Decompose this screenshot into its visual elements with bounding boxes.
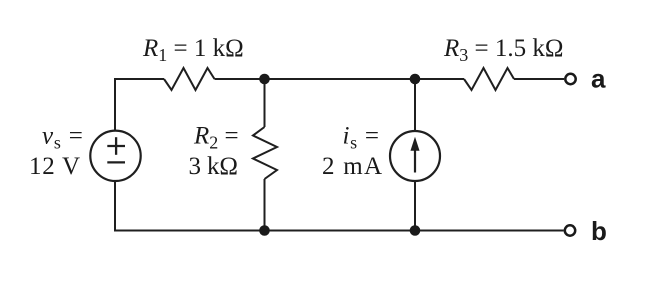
wire top middle (215, 78, 465, 80)
resistor R2 (253, 127, 277, 179)
wire R2 branch top (264, 79, 266, 127)
svg-text:R3 = 1.5 kΩ: R3 = 1.5 kΩ (443, 35, 563, 65)
wire to terminal a (514, 78, 564, 80)
vs plus sign (107, 145, 125, 147)
node junction dot top-right (410, 74, 421, 85)
svg-text:R2 =: R2 = (193, 123, 239, 153)
current source is (390, 131, 440, 181)
voltage source vs (90, 131, 140, 181)
svg-text:vs =: vs = (42, 123, 84, 153)
node junction dot bottom-right (410, 225, 421, 236)
vs minus sign (107, 161, 125, 163)
wire current-source branch top (414, 79, 416, 131)
svg-text:2 mA: 2 mA (322, 153, 382, 180)
current source arrow (411, 138, 419, 173)
wire current-source branch bottom (414, 181, 416, 231)
svg-text:R1 = 1 kΩ: R1 = 1 kΩ (142, 35, 244, 65)
resistor R3 (464, 68, 514, 90)
resistor R1 (164, 68, 215, 90)
svg-text:b: b (591, 216, 607, 246)
svg-text:3 kΩ: 3 kΩ (189, 153, 239, 180)
svg-text:is =: is = (343, 123, 380, 153)
terminal a open circle (565, 74, 575, 84)
node junction dot top-left (259, 74, 270, 85)
wire top-left segment (115, 79, 164, 131)
node junction dot bottom-left (259, 225, 270, 236)
svg-text:a: a (591, 64, 606, 94)
terminal b open circle (565, 225, 575, 235)
wire R2 branch bottom (264, 179, 266, 231)
svg-text:12 V: 12 V (29, 153, 80, 180)
wire bottom (115, 181, 564, 231)
